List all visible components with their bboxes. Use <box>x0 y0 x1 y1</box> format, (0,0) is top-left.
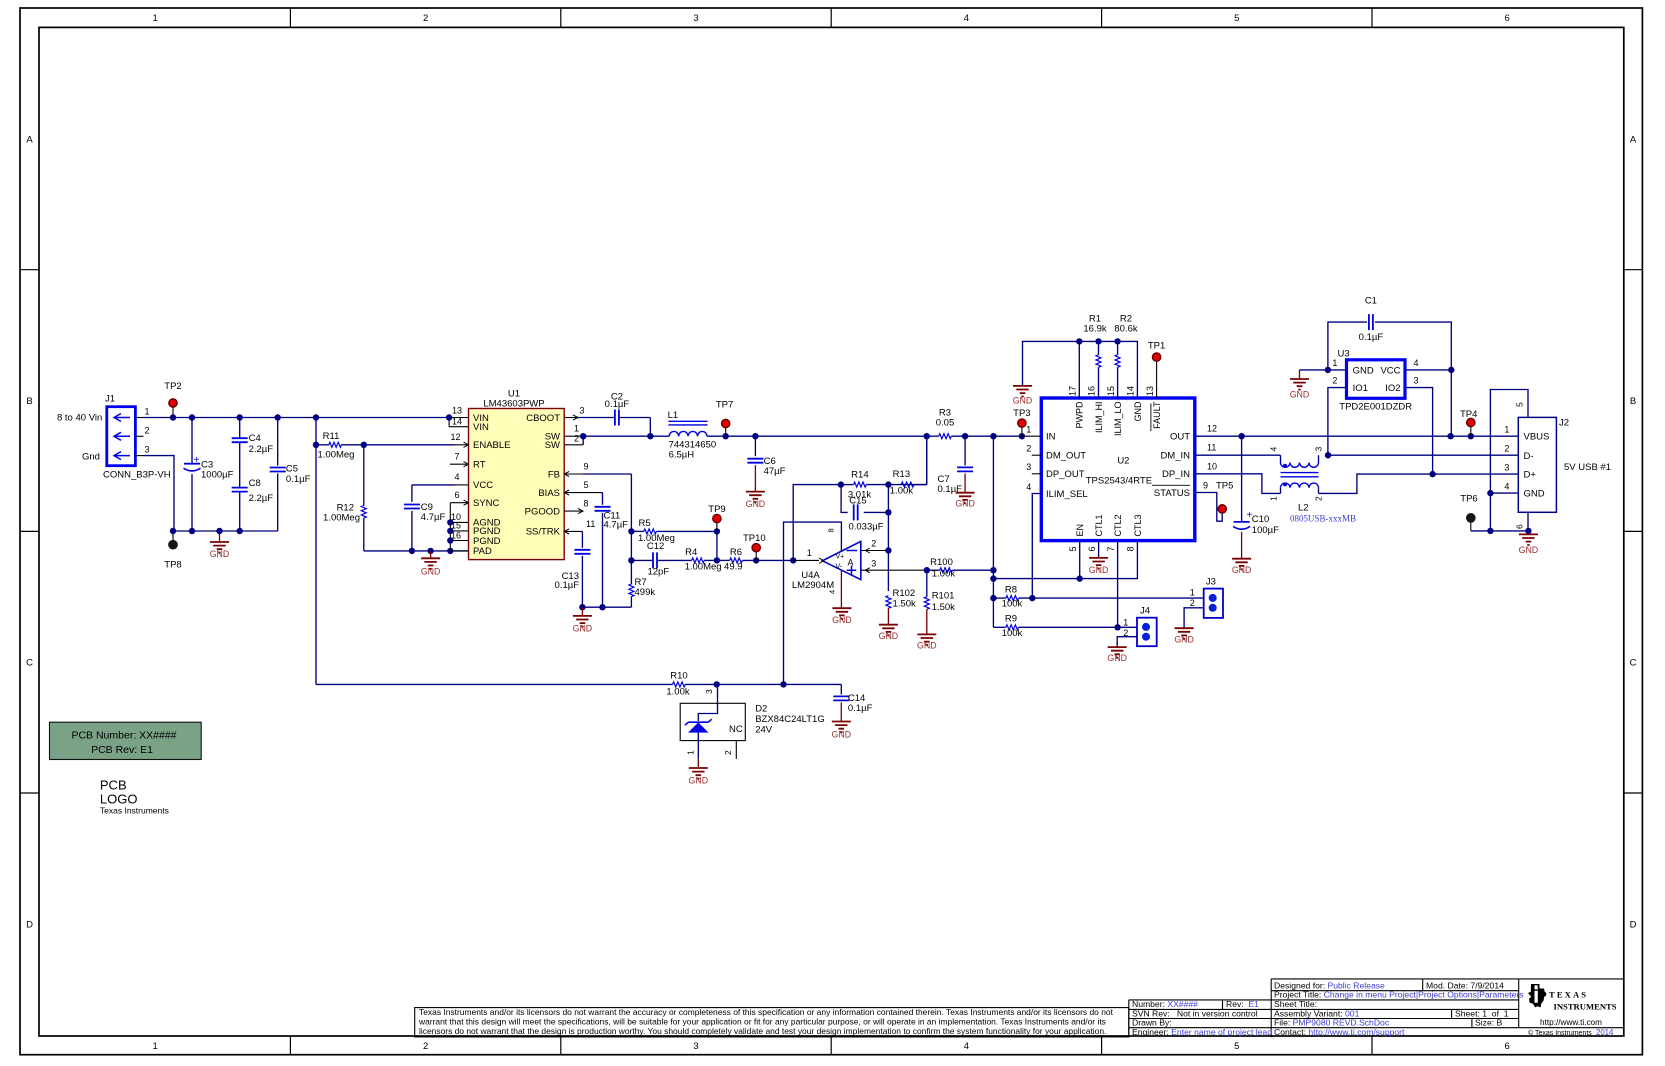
svg-text:4: 4 <box>1269 447 1279 452</box>
svg-text:ENABLE: ENABLE <box>473 440 511 451</box>
svg-text:GND: GND <box>1524 488 1545 499</box>
svg-text:warrant that this design will: warrant that this design will meet the s… <box>418 1017 1106 1027</box>
svg-text:NC: NC <box>729 724 743 735</box>
svg-text:IO2: IO2 <box>1385 383 1400 394</box>
svg-text:VBUS: VBUS <box>1524 432 1550 443</box>
svg-text:V-: V- <box>836 564 843 571</box>
svg-text:TPS2543/4RTE: TPS2543/4RTE <box>1086 476 1152 487</box>
svg-text:2: 2 <box>423 13 428 24</box>
svg-text:6: 6 <box>1515 524 1525 529</box>
svg-text:R5: R5 <box>639 518 651 529</box>
svg-text:8: 8 <box>827 528 836 532</box>
svg-text:2.2µF: 2.2µF <box>249 493 274 504</box>
svg-text:R9: R9 <box>1005 614 1017 625</box>
svg-text:C15: C15 <box>849 496 866 507</box>
svg-text:TP5: TP5 <box>1216 481 1233 492</box>
svg-text:DP_OUT: DP_OUT <box>1046 469 1085 480</box>
svg-text:TP8: TP8 <box>164 560 181 571</box>
svg-text:16: 16 <box>1087 386 1097 396</box>
svg-text:PGND: PGND <box>473 536 501 547</box>
svg-text:47µF: 47µF <box>764 466 786 477</box>
svg-text:V+: V+ <box>836 554 845 561</box>
svg-text:8 to 40 Vin: 8 to 40 Vin <box>57 413 102 424</box>
svg-text:TP3: TP3 <box>1013 408 1030 419</box>
svg-text:2: 2 <box>1026 444 1031 454</box>
svg-text:GND: GND <box>1232 565 1252 575</box>
svg-text:D: D <box>1630 919 1637 930</box>
svg-text:13: 13 <box>452 406 462 416</box>
svg-text:TP7: TP7 <box>716 400 733 411</box>
svg-text:Texas Instruments: Texas Instruments <box>100 806 169 816</box>
svg-text:9: 9 <box>583 462 588 472</box>
svg-text:Texas Instruments and/or its l: Texas Instruments and/or its licensors d… <box>419 1007 1114 1017</box>
svg-text:3: 3 <box>1026 462 1031 472</box>
svg-text:100µF: 100µF <box>1252 525 1279 536</box>
svg-text:PCB Rev: E1: PCB Rev: E1 <box>91 744 153 756</box>
svg-text:R11: R11 <box>323 431 340 442</box>
svg-text:0.1µF: 0.1µF <box>848 703 873 714</box>
svg-text:GND: GND <box>1290 390 1310 400</box>
svg-text:R14: R14 <box>851 470 868 481</box>
svg-text:GND: GND <box>689 776 709 786</box>
svg-text:7: 7 <box>454 452 459 462</box>
svg-text:11: 11 <box>586 519 595 529</box>
svg-text:U3: U3 <box>1338 349 1350 360</box>
svg-text:12: 12 <box>450 432 460 442</box>
svg-text:ILIM_SEL: ILIM_SEL <box>1046 489 1088 500</box>
svg-text:D-: D- <box>1524 451 1534 462</box>
svg-text:J2: J2 <box>1559 418 1569 429</box>
svg-text:J3: J3 <box>1206 577 1216 588</box>
svg-text:ILIM_HI: ILIM_HI <box>1094 402 1104 434</box>
svg-text:499k: 499k <box>635 587 656 598</box>
svg-text:1.00k: 1.00k <box>932 569 955 580</box>
svg-text:R101: R101 <box>932 591 955 602</box>
svg-text:GND: GND <box>917 641 937 651</box>
svg-text:3: 3 <box>693 13 698 24</box>
svg-text:VCC: VCC <box>473 480 493 491</box>
svg-text:5V USB #1: 5V USB #1 <box>1564 462 1611 473</box>
svg-text:2: 2 <box>1504 444 1509 454</box>
svg-text:http://www.ti.com: http://www.ti.com <box>1540 1018 1602 1027</box>
svg-text:LM43603PWP: LM43603PWP <box>483 399 544 410</box>
svg-text:2: 2 <box>1190 598 1195 608</box>
svg-text:FB: FB <box>548 469 560 480</box>
svg-text:1: 1 <box>1269 496 1279 501</box>
svg-text:12pF: 12pF <box>647 567 669 578</box>
svg-text:7: 7 <box>1106 547 1116 552</box>
svg-text:6: 6 <box>1087 547 1097 552</box>
svg-text:3: 3 <box>871 559 876 569</box>
svg-text:CTL1: CTL1 <box>1094 514 1104 536</box>
svg-text:11: 11 <box>1207 443 1216 453</box>
svg-text:DM_IN: DM_IN <box>1160 451 1190 462</box>
svg-text:3: 3 <box>1413 376 1418 386</box>
svg-text:BZX84C24LT1G: BZX84C24LT1G <box>755 714 825 725</box>
svg-text:GND: GND <box>832 730 852 740</box>
svg-text:CBOOT: CBOOT <box>526 413 560 424</box>
svg-text:100k: 100k <box>1002 599 1023 610</box>
svg-text:TPD2E001DZDR: TPD2E001DZDR <box>1339 402 1412 413</box>
svg-text:1: 1 <box>574 424 579 434</box>
svg-text:B: B <box>26 396 32 407</box>
svg-text:4: 4 <box>1026 482 1031 492</box>
svg-text:STATUS: STATUS <box>1154 488 1190 499</box>
svg-text:6: 6 <box>1505 13 1510 24</box>
svg-text:TP10: TP10 <box>743 533 766 544</box>
svg-text:2014: 2014 <box>1596 1028 1614 1037</box>
svg-text:INSTRUMENTS: INSTRUMENTS <box>1554 1002 1617 1012</box>
svg-text:VIN: VIN <box>473 422 489 433</box>
svg-text:Contact: http://www.ti.com/sup: Contact: http://www.ti.com/support <box>1274 1027 1405 1037</box>
svg-text:GND: GND <box>421 567 441 577</box>
svg-text:GND: GND <box>1089 565 1109 575</box>
svg-text:Gnd: Gnd <box>82 452 100 463</box>
svg-text:CONN_B3P-VH: CONN_B3P-VH <box>103 470 171 481</box>
svg-text:R102: R102 <box>893 588 916 599</box>
svg-text:8: 8 <box>1126 547 1136 552</box>
svg-text:1.00k: 1.00k <box>666 687 689 698</box>
svg-text:1.00Meg: 1.00Meg <box>323 512 360 523</box>
svg-text:EN: EN <box>1075 524 1085 537</box>
svg-text:L1: L1 <box>668 410 679 421</box>
svg-text:DP_IN: DP_IN <box>1162 469 1190 480</box>
svg-text:J4: J4 <box>1140 606 1150 617</box>
svg-text:U2: U2 <box>1117 456 1129 467</box>
svg-text:2: 2 <box>723 750 733 755</box>
svg-text:TEXAS: TEXAS <box>1549 990 1588 1000</box>
svg-text:1.50k: 1.50k <box>893 599 916 610</box>
svg-text:PWPD: PWPD <box>1075 401 1085 429</box>
svg-text:1.00Meg: 1.00Meg <box>685 562 722 573</box>
svg-text:3: 3 <box>1313 447 1323 452</box>
svg-text:2: 2 <box>871 539 876 549</box>
svg-text:5: 5 <box>1234 13 1239 24</box>
svg-text:ILIM_LO: ILIM_LO <box>1113 402 1123 437</box>
svg-text:100k: 100k <box>1002 628 1023 639</box>
svg-text:0805USB-xxxMB: 0805USB-xxxMB <box>1290 514 1356 524</box>
svg-text:C: C <box>26 658 33 669</box>
svg-text:13: 13 <box>1145 386 1155 396</box>
svg-text:3: 3 <box>145 445 150 455</box>
svg-text:6: 6 <box>454 490 459 500</box>
svg-text:1: 1 <box>153 1041 158 1052</box>
svg-text:1: 1 <box>686 750 696 755</box>
svg-text:4: 4 <box>454 472 459 482</box>
svg-text:2: 2 <box>1313 496 1323 501</box>
svg-text:1: 1 <box>1026 424 1031 434</box>
svg-text:FAULT: FAULT <box>1152 401 1162 429</box>
svg-text:1: 1 <box>1332 358 1337 368</box>
svg-text:licensors do not warrant that: licensors do not warrant that the design… <box>419 1026 1106 1036</box>
svg-text:0.1µF: 0.1µF <box>555 580 580 591</box>
svg-text:L2: L2 <box>1298 503 1309 514</box>
svg-text:1: 1 <box>145 407 150 417</box>
svg-text:49.9: 49.9 <box>724 562 743 573</box>
svg-text:SS/TRK: SS/TRK <box>526 527 561 538</box>
svg-text:C: C <box>1630 658 1637 669</box>
svg-text:2.2µF: 2.2µF <box>249 444 274 455</box>
svg-text:1000µF: 1000µF <box>201 470 234 481</box>
svg-text:6.5µH: 6.5µH <box>669 450 695 461</box>
svg-text:C1: C1 <box>1365 296 1377 307</box>
svg-text:TP2: TP2 <box>164 381 181 392</box>
svg-text:BIAS: BIAS <box>538 488 560 499</box>
svg-text:0.1µF: 0.1µF <box>938 484 963 495</box>
svg-text:GND: GND <box>955 499 975 509</box>
svg-text:3: 3 <box>693 1041 698 1052</box>
svg-text:1.50k: 1.50k <box>932 602 955 613</box>
svg-text:C10: C10 <box>1252 514 1269 525</box>
svg-text:OUT: OUT <box>1170 432 1190 443</box>
svg-text:PAD: PAD <box>473 546 492 557</box>
svg-text:IO1: IO1 <box>1353 383 1368 394</box>
svg-text:GND: GND <box>1107 653 1127 663</box>
svg-text:3: 3 <box>704 689 714 694</box>
svg-text:3: 3 <box>579 406 584 416</box>
svg-text:4: 4 <box>1413 358 1418 368</box>
svg-text:SYNC: SYNC <box>473 498 500 509</box>
svg-text:2: 2 <box>145 425 150 435</box>
svg-text:Engineer: Enter name of projec: Engineer: Enter name of project lead <box>1132 1027 1272 1037</box>
svg-text:GND: GND <box>746 499 766 509</box>
svg-text:5: 5 <box>1068 547 1078 552</box>
svg-text:D2: D2 <box>755 704 767 715</box>
svg-text:C5: C5 <box>286 464 298 475</box>
svg-text:0.05: 0.05 <box>936 418 955 429</box>
svg-text:1: 1 <box>153 13 158 24</box>
svg-text:6: 6 <box>1505 1041 1510 1052</box>
svg-text:17: 17 <box>1068 386 1078 396</box>
svg-text:16.9k: 16.9k <box>1083 324 1106 335</box>
svg-text:GND: GND <box>879 631 899 641</box>
svg-text:16: 16 <box>451 530 461 540</box>
svg-text:IN: IN <box>1046 432 1056 443</box>
svg-text:10: 10 <box>1207 462 1217 472</box>
svg-text:15: 15 <box>1106 386 1116 396</box>
svg-text:4: 4 <box>964 13 969 24</box>
svg-text:GND: GND <box>1133 401 1143 422</box>
svg-text:B: B <box>1630 396 1636 407</box>
svg-text:15: 15 <box>451 521 461 531</box>
svg-text:0.1µF: 0.1µF <box>286 474 311 485</box>
svg-text:3: 3 <box>1504 462 1509 472</box>
svg-text:RT: RT <box>473 460 486 471</box>
svg-text:A: A <box>1630 134 1637 145</box>
svg-text:1: 1 <box>807 548 812 558</box>
svg-text:4: 4 <box>964 1041 969 1052</box>
svg-text:1.00k: 1.00k <box>890 486 913 497</box>
svg-text:0.033µF: 0.033µF <box>848 522 883 533</box>
svg-text:1: 1 <box>1504 425 1509 435</box>
svg-text:LM2904M: LM2904M <box>792 580 834 591</box>
svg-text:© Texas Instruments: © Texas Instruments <box>1528 1029 1592 1037</box>
svg-text:R4: R4 <box>685 547 697 558</box>
svg-text:12: 12 <box>1207 424 1217 434</box>
svg-text:14: 14 <box>1126 386 1136 396</box>
svg-text:TP1: TP1 <box>1148 341 1165 352</box>
svg-text:0.1µF: 0.1µF <box>1359 332 1384 343</box>
svg-text:80.6k: 80.6k <box>1114 324 1137 335</box>
svg-text:DM_OUT: DM_OUT <box>1046 451 1086 462</box>
svg-text:SW: SW <box>545 440 560 451</box>
svg-text:PGOOD: PGOOD <box>525 506 561 517</box>
svg-text:GND: GND <box>1519 545 1539 555</box>
svg-text:D+: D+ <box>1524 469 1537 480</box>
svg-text:J1: J1 <box>105 394 115 405</box>
svg-text:GND: GND <box>1353 365 1374 376</box>
svg-text:C12: C12 <box>647 541 664 552</box>
svg-text:A: A <box>848 558 854 568</box>
svg-text:2: 2 <box>1332 376 1337 386</box>
svg-text:Size: B: Size: B <box>1475 1018 1502 1028</box>
svg-text:R8: R8 <box>1005 585 1017 596</box>
svg-text:5: 5 <box>583 480 588 490</box>
svg-text:GND: GND <box>1013 396 1033 406</box>
svg-text:R6: R6 <box>730 547 742 558</box>
svg-text:PCB Number: XX####: PCB Number: XX#### <box>71 730 176 742</box>
svg-text:PCB: PCB <box>100 778 127 793</box>
svg-text:C4: C4 <box>249 433 261 444</box>
svg-text:GND: GND <box>1174 635 1194 645</box>
svg-text:24V: 24V <box>755 725 773 736</box>
svg-text:A: A <box>26 134 33 145</box>
svg-text:1: 1 <box>1123 617 1128 627</box>
svg-text:CTL3: CTL3 <box>1133 514 1143 536</box>
svg-text:2: 2 <box>423 1041 428 1052</box>
svg-text:GND: GND <box>573 624 593 634</box>
svg-text:LOGO: LOGO <box>100 792 138 807</box>
svg-text:1: 1 <box>1190 587 1195 597</box>
svg-text:4.7µF: 4.7µF <box>604 520 629 531</box>
svg-text:8: 8 <box>583 499 588 509</box>
svg-text:TP6: TP6 <box>1460 494 1477 505</box>
svg-text:R13: R13 <box>893 469 910 480</box>
svg-text:Project Title: Change in menu: Project Title: Change in menu Project|Pr… <box>1274 990 1524 1000</box>
svg-text:14: 14 <box>452 417 462 427</box>
svg-text:D: D <box>26 919 33 930</box>
svg-text:9: 9 <box>1203 481 1208 491</box>
svg-text:R100: R100 <box>930 557 953 568</box>
svg-text:5: 5 <box>1234 1041 1239 1052</box>
svg-text:VCC: VCC <box>1380 365 1400 376</box>
svg-text:4: 4 <box>1504 481 1509 491</box>
svg-text:CTL2: CTL2 <box>1113 514 1123 536</box>
svg-text:0.1µF: 0.1µF <box>605 399 630 410</box>
svg-text:GND: GND <box>832 615 852 625</box>
svg-text:TP9: TP9 <box>708 504 725 515</box>
svg-text:+: + <box>194 455 200 466</box>
svg-text:2: 2 <box>574 434 579 444</box>
svg-text:1.00Meg: 1.00Meg <box>318 450 355 461</box>
svg-text:C8: C8 <box>249 478 261 489</box>
svg-text:TP4: TP4 <box>1460 409 1477 420</box>
svg-text:R10: R10 <box>670 671 687 682</box>
svg-text:5: 5 <box>1515 402 1525 407</box>
svg-text:4.7µF: 4.7µF <box>421 512 446 523</box>
svg-text:GND: GND <box>210 549 230 559</box>
